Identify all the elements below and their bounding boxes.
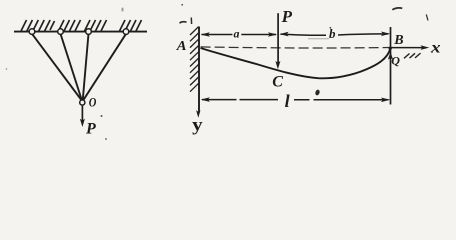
hinge circle 2 [58,29,64,35]
svg-text:x: x [430,39,441,56]
dashed chord AB [201,47,390,48]
svg-text:C: C [272,74,283,91]
ceiling line [14,31,147,33]
stray dot below left P [105,138,107,140]
force P line (right) [277,13,279,64]
stray dash top right of B [392,8,402,10]
svg-text:a: a [234,26,240,40]
sagging cable curve [201,48,391,78]
ceiling hatching group 2 [59,20,81,31]
dim arrow out of P line [279,32,288,37]
l dim arrow right [381,98,390,103]
faint top speck left diagram [122,8,124,12]
svg-text:l: l [285,91,290,111]
dim arrow at B (right) [381,32,390,37]
dimension line b segment [281,34,327,35]
wall line at A [198,27,200,113]
force P arrow (left) [80,106,85,127]
l dim arrow left [201,97,210,102]
ink blot on l line [315,89,321,96]
svg-text:P: P [85,120,96,137]
vertical line at B [390,27,392,105]
x-axis arrowhead [421,45,430,50]
x-axis from B [391,47,424,49]
svg-text:B: B [393,33,403,48]
speck right of O arrow [101,115,103,117]
stray tick top right [426,15,428,21]
dim arrow at wall (left) [201,32,210,37]
ceiling hatching group 3 [85,20,107,31]
wall hatching [190,27,199,92]
speck above b [330,27,332,29]
svg-text:P: P [281,7,293,26]
stray tick above wall [190,18,192,25]
hinge circle 4 [123,29,129,35]
svg-text:O: O [89,95,97,110]
svg-text:y: y [192,114,203,134]
junction blob at B [389,47,392,50]
hinge circle 1 [29,29,35,35]
string 2 [61,34,82,100]
string 3 [83,34,89,100]
svg-text:A: A [176,39,187,54]
dimension line a segment [202,34,233,36]
faint dot left margin [6,68,8,70]
string 1 [32,34,81,100]
ceiling hatching group 4 [120,20,142,31]
stray dot above A [181,4,183,6]
svg-text:Q: Q [391,54,400,68]
reaction Q arrowhead (up) [388,52,393,60]
force P arrowhead (right) [275,61,280,69]
hinge circle 3 [86,29,92,35]
node O ring [80,100,85,105]
stray squiggle above A [180,22,187,24]
string 4 [84,34,126,100]
ceiling hatching group 1 [21,20,55,31]
faint ghost line under b dimension [308,38,329,40]
dim arrow into P line (right) [268,32,277,37]
span dimension line l [202,99,278,101]
support hatching right of B [404,53,421,58]
y-axis arrowhead [196,110,200,118]
